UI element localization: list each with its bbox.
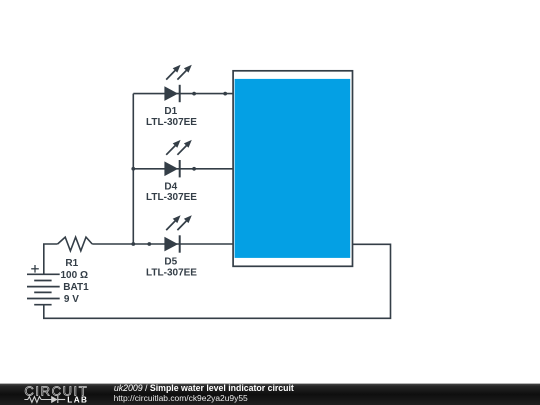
logo diode triangle (51, 396, 57, 403)
svg-text:D4: D4 (164, 181, 177, 192)
svg-text:D5: D5 (164, 257, 177, 268)
junction dot row2 b (192, 167, 196, 171)
junction dot row1 a (192, 92, 196, 96)
LED D1 (164, 65, 191, 103)
junction dot row2 bus (131, 167, 135, 171)
resistor R1 (58, 237, 93, 251)
LED D4 (164, 140, 191, 178)
battery plus sign (31, 265, 39, 273)
water fill (blue rectangle) (235, 79, 351, 258)
svg-text:D1: D1 (164, 106, 177, 117)
svg-text:BAT1: BAT1 (63, 282, 89, 293)
junction dot row1 b (223, 92, 227, 96)
logo schematic squiggle: wire resistor wire diode (24, 396, 65, 403)
wire row 1 (D1 anode/cathode run) (133, 93, 233, 95)
svg-text:R1: R1 (65, 258, 78, 269)
svg-text:http://circuitlab.com/ck9e2ya2: http://circuitlab.com/ck9e2ya2u9y55 (114, 393, 248, 403)
svg-text:LTL-307EE: LTL-307EE (146, 192, 197, 203)
svg-text:uk2009 / Simple water level in: uk2009 / Simple water level indicator ci… (114, 383, 294, 393)
LED D5 (164, 215, 191, 253)
svg-text:LTL-307EE: LTL-307EE (146, 117, 197, 128)
svg-text:LAB: LAB (67, 396, 88, 405)
svg-text:LTL-307EE: LTL-307EE (146, 267, 197, 278)
svg-text:9 V: 9 V (64, 294, 79, 305)
wire row 3 right of resistor to tank (92, 243, 233, 245)
junction dot row3 b (147, 242, 151, 246)
battery BAT1 (27, 274, 60, 304)
junction dot row3 bus (131, 242, 135, 246)
wire left bus vertical (132, 94, 134, 244)
wire tank right to bottom loop back to battery (44, 244, 391, 318)
wire battery top lead and corner (44, 244, 58, 274)
tank outline rectangle (233, 71, 352, 266)
wire row 2 (D4 run) (133, 168, 233, 170)
svg-text:100 Ω: 100 Ω (61, 270, 88, 281)
